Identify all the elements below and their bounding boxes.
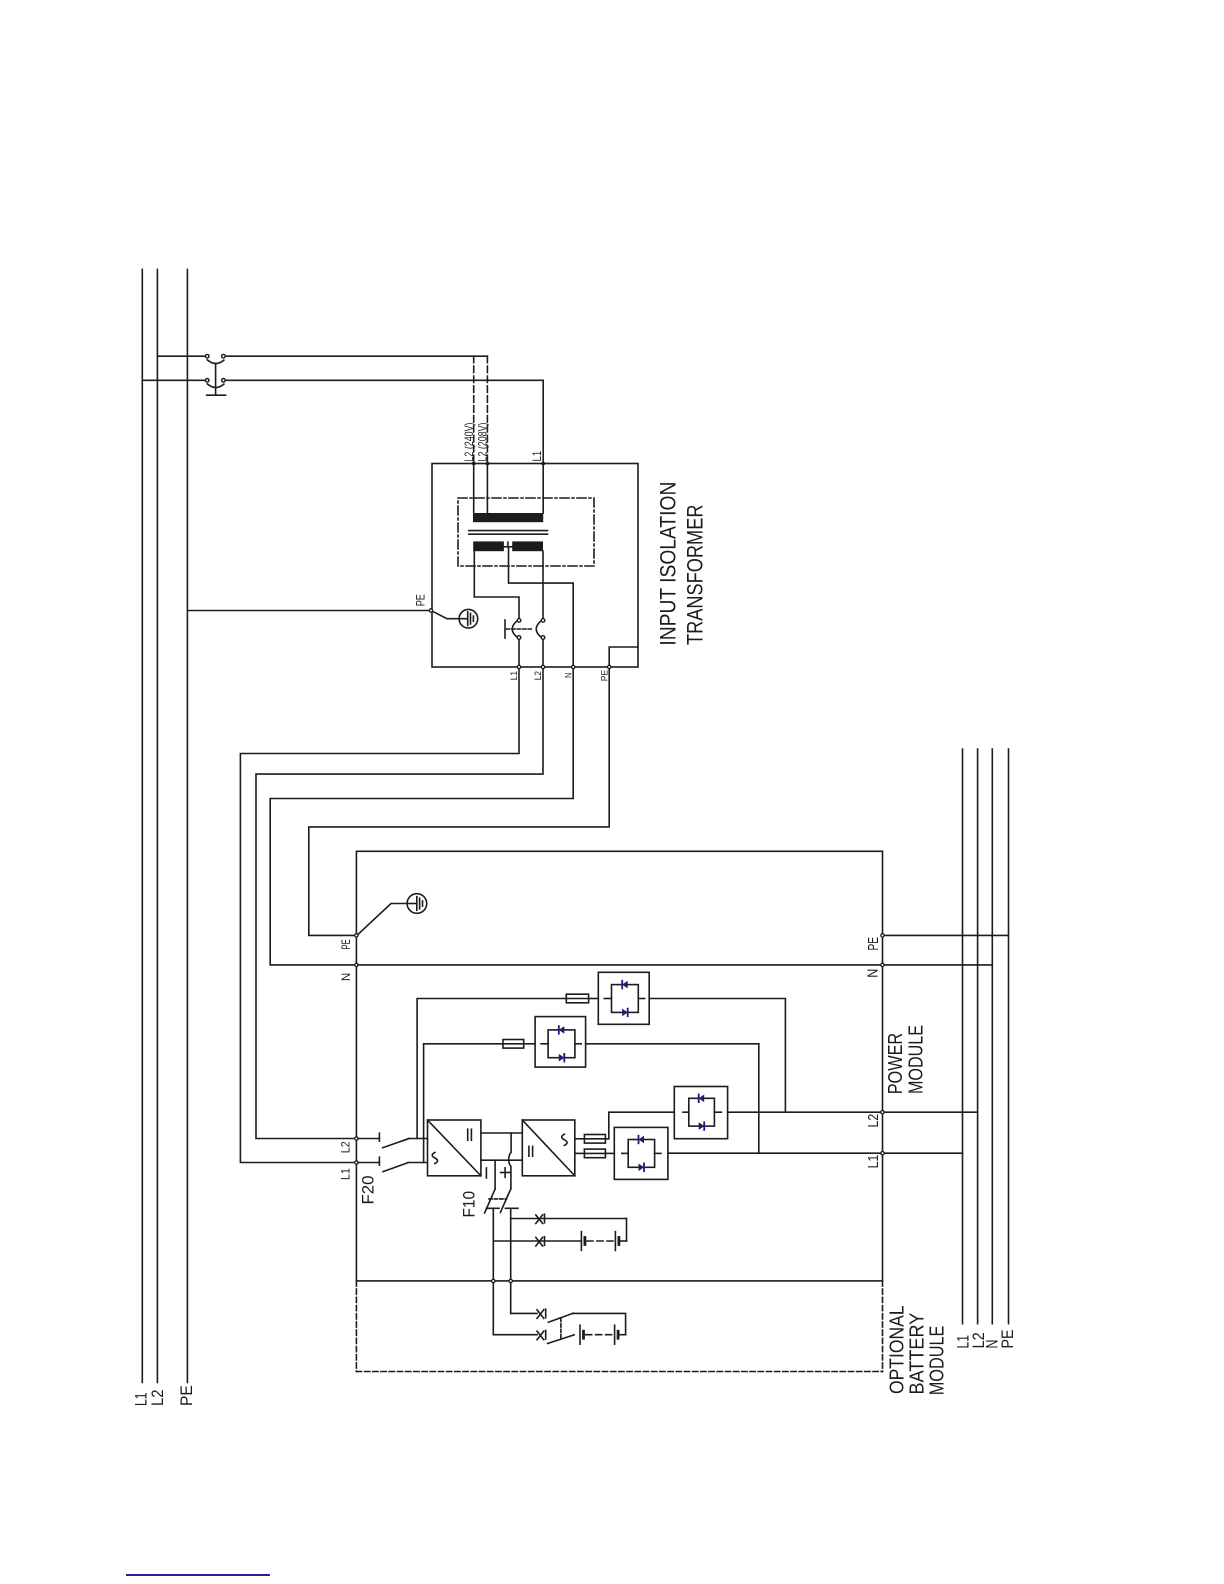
node transformer terminal L1 [517, 665, 520, 668]
diode D3a (top, left-pointing) [699, 1095, 705, 1103]
converter U1 rectifier box [428, 1120, 481, 1176]
node L1 terminal dot [541, 462, 545, 466]
converter U2 DC bars [528, 1146, 530, 1156]
wire fuse F2 to diode module D2 [524, 1043, 535, 1045]
node battery feed 2 boundary circle [509, 1279, 512, 1282]
wire N transformer to power module [270, 669, 573, 965]
wire F20 pole L2 to rectifier [409, 1138, 428, 1140]
battery module dashed box right edge [882, 1281, 884, 1372]
diode D2a (top, left-pointing) [559, 1026, 565, 1034]
transformer T1 enclosure box [432, 464, 638, 668]
wire breaker pole1 to L2 taps [225, 355, 487, 357]
diode module D1 inner loop [604, 985, 644, 1013]
wire DC link plus [481, 1132, 522, 1134]
svg-text:L1: L1 [530, 451, 544, 462]
wire fuse F4 to diode module D4 [605, 1152, 614, 1154]
wire dashed L2 240V tap [473, 356, 475, 463]
diode module D1 box [598, 972, 649, 1024]
wire right L2 terminal to output bus [884, 1111, 977, 1113]
converter U2 AC tilde [562, 1134, 567, 1145]
wire L2 transformer to power module [256, 669, 543, 1139]
wire PE terminal to module earth [358, 904, 407, 935]
svg-text:N: N [865, 969, 882, 978]
node transformer PE circle [429, 609, 432, 612]
svg-text:PE: PE [339, 939, 353, 949]
wire bypass branch 1 from L2 [417, 999, 566, 1139]
diode module D3 box [674, 1087, 727, 1139]
wire selector left to L1 terminal [518, 639, 520, 665]
diode D3b (bottom, right-pointing) [699, 1122, 705, 1130]
node power module left terminal L1 [355, 1161, 358, 1164]
node power module right terminal L2 [881, 1111, 884, 1114]
diode module D4 box [614, 1127, 668, 1179]
svg-text:L2: L2 [865, 1114, 882, 1128]
wire PE transformer to power module [309, 669, 609, 936]
fuse F2 [503, 1040, 524, 1049]
wire L1 transformer to power module [240, 669, 519, 1163]
node transformer terminal L2 [541, 665, 544, 668]
svg-text:L2 (240V): L2 (240V) [462, 423, 476, 462]
wire battery A bottom line left [493, 1240, 581, 1242]
wire PE terminal to frame [609, 647, 638, 665]
selector gang link dashed [507, 628, 534, 630]
connector selector left top circle [517, 619, 521, 623]
svg-text:L2: L2 [533, 671, 543, 680]
connector selector left bottom circle [517, 636, 521, 640]
wire battery feed 1 in battery module [492, 1283, 494, 1335]
converter U2 diagonal [522, 1120, 575, 1176]
connector selector right bottom circle [541, 636, 545, 640]
diode module D2 inner loop [541, 1030, 581, 1058]
svg-text:BATTERY: BATTERY [906, 1313, 928, 1395]
svg-text:N: N [563, 673, 573, 678]
wire battery A bottom line right [621, 1240, 627, 1242]
battery module dashed box bottom edge [356, 1371, 882, 1373]
wire PE input bus [186, 269, 188, 1382]
wire N output bus [991, 749, 993, 1324]
wire primary feed L1 inside box [542, 464, 544, 514]
node battery feed 1 boundary circle [492, 1279, 495, 1282]
wire battery B dashed middle [586, 1334, 613, 1336]
breaker F20 pole L1 wire in [358, 1162, 379, 1164]
transformer T1 core lines [469, 530, 548, 532]
svg-text:MODULE: MODULE [906, 1025, 928, 1094]
wire battery A dashed middle [587, 1240, 613, 1242]
battery B cell 2 [615, 1325, 619, 1344]
svg-text:PE: PE [998, 1330, 1017, 1349]
switch battery B top blade [548, 1313, 573, 1322]
svg-text:INPUT ISOLATION: INPUT ISOLATION [655, 482, 680, 646]
breaker actuator bar [207, 394, 226, 396]
wire breaker pole2 to transformer L1 [225, 379, 543, 381]
node L2 (240V) terminal dot [472, 462, 476, 466]
breaker F20 pole L1 blade [383, 1163, 408, 1172]
power module enclosure box [356, 851, 882, 1281]
breaker F20 pole L2 tick [378, 1133, 380, 1141]
wire right L1 terminal to output bus [884, 1152, 962, 1154]
svg-text:TRANSFORMER: TRANSFORMER [682, 505, 707, 646]
wire battery B top line [511, 1312, 537, 1314]
node power module right terminal L1 [881, 1152, 884, 1155]
wire battery B top line right [573, 1313, 625, 1334]
breaker F20 pole L2 wire in [358, 1138, 379, 1140]
breaker F20 pole L2 blade [383, 1139, 409, 1148]
label minus [485, 1168, 487, 1178]
diode module D3 inner loop [683, 1098, 721, 1126]
battery B cell 1 [580, 1325, 584, 1344]
wire inverter out bottom to fuse F4 [575, 1152, 585, 1154]
node transformer terminal N [572, 665, 575, 668]
svg-text:L1: L1 [509, 671, 519, 680]
breaker input pole 1 contact circles [205, 354, 209, 358]
diode D4b (bottom, right-pointing) [639, 1164, 645, 1172]
transformer T1 core boundary (dash-dot) [458, 498, 594, 566]
converter U1 diagonal [428, 1120, 481, 1176]
diode module D4 inner loop [622, 1140, 661, 1168]
wire PE bus to transformer PE point [187, 610, 429, 612]
breaker F10 pole 2 blade [500, 1189, 511, 1213]
wire L2 output bus [977, 749, 979, 1324]
svg-text:MODULE: MODULE [927, 1326, 949, 1396]
connector selector right top circle [541, 619, 545, 623]
svg-text:F10: F10 [459, 1191, 478, 1218]
converter U1 AC tilde [432, 1153, 437, 1164]
svg-text:L1: L1 [339, 1168, 353, 1180]
connector selector left arc [512, 621, 516, 636]
wire L1 output bus [962, 749, 964, 1324]
wire inverter out top to fuse F3 [575, 1138, 585, 1140]
svg-text:OPTIONAL: OPTIONAL [887, 1305, 909, 1394]
wire primary feed 208V inside box [486, 464, 488, 514]
fuse F3 [584, 1135, 605, 1144]
diode D2b (bottom, right-pointing) [559, 1054, 565, 1062]
wire fuse F4 through [584, 1152, 605, 1154]
breaker F10 gang link dashed [489, 1198, 507, 1200]
connector battery A bottom X [536, 1237, 545, 1246]
svg-text:N: N [339, 973, 353, 981]
wire secondary center tick [507, 542, 509, 547]
svg-text:POWER: POWER [885, 1033, 907, 1095]
node power module left terminal L2 [355, 1137, 358, 1140]
svg-text:F20: F20 [359, 1176, 378, 1205]
wire L1 to input breaker pole 2 [142, 379, 205, 381]
wire right N terminal to output bus [884, 964, 992, 966]
wire D3 output to right terminal L2 [728, 1111, 881, 1113]
wire fuse F3 up to diode module D3 [605, 1112, 674, 1139]
breaker input pole 1 arc [207, 360, 224, 364]
svg-text:PE: PE [599, 670, 609, 682]
wire fuse F1 to diode module D1 [589, 998, 599, 1000]
wire dashed L2 208V tap [486, 356, 488, 463]
battery A cell 1 [581, 1232, 585, 1251]
node transformer terminal PE [608, 665, 611, 668]
wire DC link minus [481, 1159, 522, 1161]
node power module right terminal PE [881, 934, 884, 937]
wire primary feed 240V inside box [473, 464, 475, 514]
wire battery feed 2 in battery module [510, 1283, 512, 1314]
wire fuse F1 through [566, 998, 588, 1000]
wire center tap to N terminal [509, 547, 574, 665]
converter U1 DC bars [467, 1129, 469, 1140]
ground earth symbol (transformer) [459, 609, 478, 628]
diode D1a (top, left-pointing) [622, 981, 628, 989]
wire battery feed 1 [492, 1208, 494, 1279]
switch battery B bottom blade [548, 1335, 575, 1344]
svg-text:PE: PE [865, 937, 882, 951]
breaker F10 pole 1 blade [485, 1189, 496, 1213]
wire F10 plus drop with hop [509, 1133, 511, 1189]
node power module right terminal N [881, 963, 884, 966]
ground earth symbol (power module) [407, 894, 427, 914]
wire secondary center link [504, 546, 512, 548]
wire N rail across power module [358, 964, 881, 966]
wire secondary right to selector [542, 551, 544, 618]
diode D4a (top, left-pointing) [639, 1136, 645, 1144]
wire L2 to input breaker pole 1 [157, 355, 205, 357]
wire L1 drop to transformer [542, 380, 544, 463]
node L2 (208V) terminal dot [486, 462, 490, 466]
selector actuator bar [504, 620, 506, 638]
transformer T1 secondary winding bar left [473, 541, 504, 551]
wire fuse F2 through [503, 1043, 524, 1045]
label plus [501, 1168, 510, 1178]
wire selector right to L2 terminal [542, 639, 544, 665]
wire battery A top line [511, 1218, 627, 1220]
svg-text:PE: PE [413, 594, 427, 606]
svg-text:L2: L2 [148, 1390, 167, 1407]
connector battery A top X [536, 1214, 545, 1223]
svg-text:L1: L1 [865, 1155, 882, 1169]
breaker input pole 2 contact circles [205, 379, 209, 383]
node power module left terminal N [355, 963, 358, 966]
diode module D2 box [535, 1017, 586, 1068]
svg-text:L2 (208V): L2 (208V) [476, 423, 490, 462]
switch battery B gang link dashed [560, 1319, 562, 1339]
breaker input pole 2 arc [207, 384, 224, 388]
wire battery A right drop [626, 1219, 628, 1242]
decorative blue footer line [127, 1574, 269, 1576]
wire secondary left to selector [474, 551, 519, 618]
breaker F10 pole 2 tick [505, 1207, 518, 1209]
wire D4 output to right terminal L1 [668, 1152, 881, 1154]
transformer T1 primary winding bar [473, 513, 543, 522]
wire battery B bottom line left [493, 1334, 537, 1336]
diode D1b (bottom, right-pointing) [622, 1009, 628, 1017]
fuse F4 [584, 1149, 605, 1158]
breaker F20 pole L1 tick [378, 1157, 380, 1165]
wire PE output bus [1008, 749, 1010, 1324]
wire battery feed 2 [510, 1208, 512, 1279]
wire D1 output to L2 bypass [649, 999, 785, 1113]
fuse F1 [566, 994, 588, 1003]
svg-text:PE: PE [177, 1385, 196, 1406]
wire F20 pole L1 to rectifier [408, 1162, 427, 1164]
transformer T1 secondary winding bar right [512, 541, 543, 551]
wire F10 minus drop [494, 1160, 496, 1189]
wire right PE terminal to output bus [884, 934, 1008, 936]
node power module left terminal PE [355, 934, 358, 937]
wire D2 output to L1 bypass [586, 1044, 759, 1153]
battery module dashed box left edge [355, 1281, 357, 1372]
wire L1 input bus [141, 269, 143, 1382]
wire battery B bottom line right [620, 1334, 626, 1336]
wire L2 input bus [156, 269, 158, 1382]
battery A cell 2 [615, 1232, 619, 1251]
breaker F10 pole 1 tick [486, 1207, 499, 1209]
wire PE to earth symbol [433, 611, 460, 618]
wire bypass branch 2 from L1 [424, 1044, 503, 1163]
wire fuse F3 through [584, 1138, 605, 1140]
svg-text:L2: L2 [339, 1141, 353, 1153]
connector battery B bottom X [537, 1330, 546, 1339]
connector battery B top X [537, 1309, 546, 1318]
connector selector right arc [536, 621, 540, 636]
breaker actuator stem [215, 364, 217, 396]
converter U2 inverter box [522, 1120, 575, 1176]
